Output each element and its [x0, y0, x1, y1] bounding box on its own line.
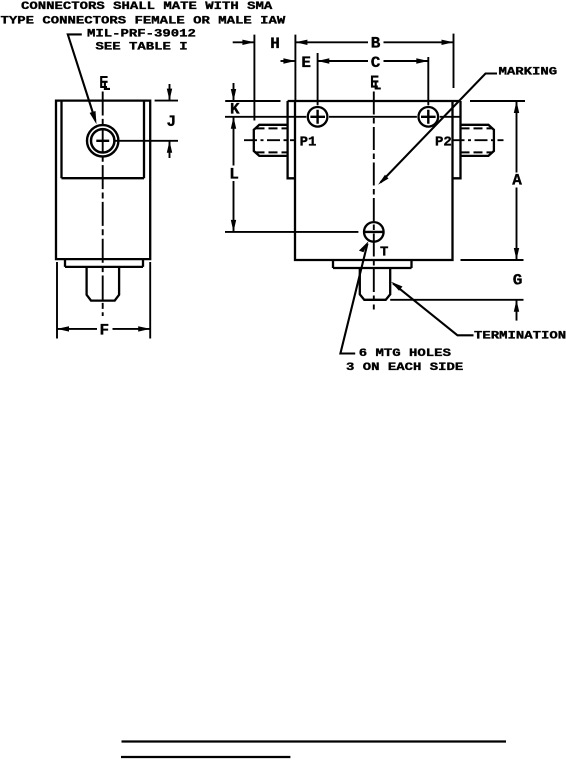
side view centerline symbol [101, 77, 110, 89]
dimension J top extension line [155, 100, 178, 102]
extension line for H left (connector face) [253, 35, 255, 121]
side view bottom step [65, 259, 143, 267]
svg-text:H: H [270, 35, 280, 53]
extension line body left edge [294, 35, 296, 101]
svg-text:J: J [167, 113, 177, 131]
signature rule long [122, 740, 507, 742]
dimension L line [233, 133, 235, 232]
svg-text:L: L [229, 165, 239, 183]
svg-text:K: K [230, 101, 240, 119]
dimension K arrows [233, 83, 235, 133]
side view termination stud [87, 267, 120, 301]
dimension F extension lines [57, 262, 150, 339]
dimension A line [516, 101, 518, 260]
note text: connector mating note [1, 0, 286, 53]
svg-text:P1: P1 [300, 134, 317, 150]
6 mtg holes leader [340, 244, 367, 354]
svg-text:T: T [380, 244, 388, 260]
side view front-plate inner edges [62, 101, 145, 179]
dimension A top extension [470, 100, 525, 102]
hole centerline through both holes / K extension [225, 116, 461, 118]
svg-text:MARKING: MARKING [499, 66, 558, 78]
marking leader [381, 74, 498, 183]
svg-text:TYPE CONNECTORS FEMALE OR MALE: TYPE CONNECTORS FEMALE OR MALE IAW [1, 15, 286, 27]
svg-text:G: G [513, 271, 523, 289]
mounting hole bottom (T) [364, 222, 384, 242]
dimension A bottom extension [461, 259, 524, 261]
mounting hole top-left [308, 107, 328, 127]
svg-text:E: E [301, 54, 311, 72]
svg-text:P2: P2 [435, 134, 452, 150]
dimension C line [317, 60, 428, 62]
svg-text:TERMINATION: TERMINATION [474, 330, 566, 342]
svg-text:C: C [371, 54, 381, 72]
extension line body right edge (B) [453, 34, 455, 88]
side view connector crosshair / J extension line [96, 140, 109, 142]
front view right flange [453, 101, 461, 178]
dimension F line with arrows [57, 328, 150, 330]
dimension H arrow [233, 41, 255, 43]
termination leader [393, 283, 474, 335]
front view top edge across flanges [288, 100, 461, 102]
svg-text:A: A [512, 172, 522, 190]
front view termination stud [360, 268, 390, 300]
svg-text:3 ON EACH SIDE: 3 ON EACH SIDE [346, 361, 464, 373]
side view vertical centerline [102, 92, 104, 317]
svg-text:B: B [371, 35, 381, 53]
dimension B line [295, 41, 453, 43]
side view SMA connector outer circle [87, 125, 118, 156]
svg-text:6 MTG HOLES: 6 MTG HOLES [359, 347, 452, 359]
front view bottom step [333, 260, 412, 268]
leader from note to side-view connector [68, 34, 95, 120]
signature rule short [121, 756, 290, 758]
mounting hole top-right [419, 107, 439, 127]
svg-text:MIL-PRF-39012: MIL-PRF-39012 [87, 28, 196, 40]
front view left flange [288, 101, 295, 178]
side view SMA connector inner circle [91, 129, 114, 152]
side view body outline [56, 101, 150, 260]
dimension E arrow [281, 60, 296, 62]
dimension K top extension [225, 100, 280, 102]
port P1 connector [254, 125, 288, 156]
front view body outline [295, 101, 453, 260]
svg-text:SEE TABLE I: SEE TABLE I [96, 41, 188, 53]
L bottom extension line [225, 231, 358, 233]
svg-text:F: F [100, 322, 110, 340]
hole vertical bars / E C extension lines [318, 53, 429, 105]
dimension G lower arrow [516, 300, 518, 321]
front view vertical centerline [373, 92, 375, 310]
G bottom extension line [390, 299, 523, 301]
front view centerline symbol [372, 77, 381, 89]
svg-text:CONNECTORS SHALL MATE WITH SMA: CONNECTORS SHALL MATE WITH SMA [21, 0, 273, 12]
dimension J arrows [169, 84, 171, 158]
port P2 connector [461, 125, 494, 156]
